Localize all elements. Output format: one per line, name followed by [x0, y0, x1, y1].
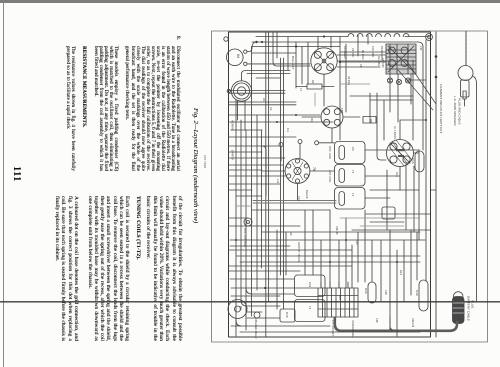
svg-text:80: 80	[239, 306, 243, 310]
svg-text:C18 .05: C18 .05	[335, 226, 338, 235]
svg-text:76: 76	[312, 167, 316, 171]
svg-text:PLUG: PLUG	[471, 300, 475, 309]
wire mid ladder y170	[229, 169, 262, 171]
tube V2 shield rings	[231, 81, 251, 101]
wire top inner y62	[340, 61, 386, 63]
mid horizontal wire 3	[231, 129, 262, 131]
svg-text:R16 400: R16 400	[411, 318, 414, 328]
wire top inner y52	[340, 51, 386, 53]
bottom vertical wire 15	[403, 240, 405, 301]
vertical harness wire 6	[261, 130, 263, 268]
wire long top run with bend	[252, 42, 423, 150]
light wire x315 drop	[314, 93, 316, 106]
wire drop K	[307, 42, 309, 84]
wire mid ladder y165	[229, 164, 283, 166]
wire right vertical x384	[383, 100, 385, 140]
wire right vertical x377	[376, 93, 378, 123]
wire socketD down right	[405, 164, 407, 230]
scan left page edge line	[3, 2, 4, 367]
wire mid vertical x346	[345, 44, 347, 112]
svg-text:C15: C15	[285, 312, 289, 318]
battery cable thick run	[335, 318, 457, 331]
wire bottom y232	[262, 231, 420, 233]
condenser block C15	[280, 309, 295, 322]
svg-text:S.W. PAD: S.W. PAD	[371, 46, 374, 57]
svg-text:84: 84	[236, 54, 240, 58]
svg-text:1B5: 1B5	[340, 108, 344, 114]
svg-text:R2: R2	[311, 80, 315, 84]
wire coil box outlet 3	[365, 197, 390, 199]
wire mid ladder y190	[229, 189, 252, 191]
mid horizontal wire 1	[229, 114, 320, 116]
svg-text:C16: C16	[411, 158, 415, 164]
svg-text:C6: C6	[351, 147, 355, 151]
mid horizontal wire 7	[229, 175, 285, 177]
svg-text:L.S. SOCKET: L.S. SOCKET	[331, 320, 335, 336]
svg-text:R5: R5	[289, 232, 293, 236]
svg-text:R10: R10	[355, 240, 358, 245]
bottom vertical wire 16	[410, 230, 412, 295]
wire mid y210	[252, 209, 330, 211]
svg-text:R8: R8	[369, 119, 373, 123]
bottom vertical wire 14	[396, 250, 398, 336]
svg-text:I.F. TRANS.: I.F. TRANS.	[393, 126, 397, 140]
socket C leads	[262, 171, 334, 200]
valve socket A	[311, 48, 337, 74]
tube V2 left terminal	[227, 89, 231, 92]
wire bottom vertical 17	[285, 232, 287, 275]
svg-text:BATTERY CABLE: BATTERY CABLE	[467, 296, 471, 321]
trimmer bank block	[386, 44, 416, 74]
wire left low ladder y312	[247, 311, 262, 313]
valve socket D	[387, 140, 414, 167]
tube V2 top lead pair	[247, 73, 290, 75]
bottom vertical wire 5	[304, 210, 306, 275]
bottom horizontal wire 2	[229, 249, 352, 251]
wire mid ladder y152	[229, 151, 262, 153]
socket A leads	[324, 61, 386, 106]
wire right vertical x387	[386, 170, 388, 230]
socket B leads	[302, 117, 360, 142]
wire drop D	[287, 37, 289, 71]
chassis right flange line	[435, 32, 437, 337]
svg-text:C23: C23	[308, 282, 312, 288]
tube V1 lower lead	[247, 63, 310, 65]
electrolytic C16	[415, 151, 424, 172]
bottom vertical wire 6	[312, 210, 314, 275]
wire bottom vertical 18	[320, 240, 322, 288]
left long vertical pair	[266, 32, 269, 337]
tube V2 top lead	[242, 71, 291, 81]
wire pair mid-left y90	[229, 91, 285, 94]
wire top drop dashes	[465, 32, 467, 66]
wire bank link 2	[337, 66, 380, 68]
svg-text:C30: C30	[415, 290, 419, 296]
wire bank link 1	[337, 54, 386, 56]
wire drop F	[317, 37, 319, 50]
socket D tick rects	[396, 149, 404, 157]
tube V1 upper lead with corner	[247, 42, 257, 52]
wire bottom y266	[229, 265, 352, 267]
wire drop H	[357, 35, 359, 56]
wire left low ladder y318	[247, 317, 280, 319]
wire drop C	[276, 32, 278, 58]
svg-text:C4: C4	[286, 128, 290, 132]
bottom horizontal wire 4	[229, 270, 300, 272]
svg-text:VOL. CONTROL: VOL. CONTROL	[243, 228, 247, 248]
svg-text:R12: R12	[338, 295, 342, 301]
svg-text:C26: C26	[384, 290, 388, 295]
wire bottom corner 1	[246, 288, 294, 294]
light wire y226 right	[360, 225, 404, 227]
vertical harness wire 3	[245, 130, 247, 330]
bottom vertical wire 13	[389, 230, 391, 330]
svg-text:C13: C13	[297, 196, 301, 201]
mid horizontal wire 6	[229, 157, 285, 159]
svg-text:C9 TRIM: C9 TRIM	[381, 58, 384, 68]
svg-text:L.S. 4D/W SPEAKER: L.S. 4D/W SPEAKER	[453, 96, 457, 126]
bottom vertical wire 8	[338, 240, 340, 288]
svg-text:ANT. TRIM.: ANT. TRIM.	[203, 155, 207, 169]
svg-text:L7: L7	[299, 88, 303, 92]
bottom vertical wire 9	[345, 218, 347, 288]
wire bottom corner 2	[241, 300, 280, 306]
figure caption	[192, 108, 199, 228]
trimmer sub circles	[387, 78, 410, 85]
wire pair mid-left y102	[229, 102, 296, 105]
border dots right	[435, 55, 438, 78]
wire top extra y57	[252, 52, 296, 54]
svg-text:SPEAKER FIELD: SPEAKER FIELD	[254, 318, 258, 338]
wire drop G	[330, 37, 332, 49]
speaker plug cap	[458, 66, 473, 81]
pointer line 2	[398, 70, 433, 110]
mid horizontal wire 5	[229, 145, 279, 147]
svg-text:PLUG AND CABLE: PLUG AND CABLE	[458, 98, 462, 125]
terminal board	[318, 288, 358, 317]
wire right mid 1	[412, 60, 414, 140]
light wire y206	[236, 205, 252, 207]
wire bank drop 1	[389, 74, 391, 112]
rectifier tube V5	[228, 300, 247, 319]
svg-text:L11: L11	[276, 179, 280, 184]
svg-text:OUTPUT TRANS.: OUTPUT TRANS.	[297, 242, 301, 263]
bottom horizontal wire 6	[231, 287, 318, 289]
bottom vertical wire 7	[329, 210, 331, 288]
wire drop E	[295, 42, 297, 88]
svg-text:R1 2000: R1 2000	[361, 50, 364, 60]
wire drop J	[301, 47, 303, 85]
bottom vertical wire 10	[351, 245, 353, 288]
bottom vertical wire 3	[276, 230, 278, 309]
wire bottom y296	[231, 295, 280, 297]
svg-text:BALLAST: BALLAST	[291, 56, 295, 69]
wire board top links	[321, 282, 348, 288]
vertical harness wire 4	[251, 47, 253, 317]
light wire y218 long	[340, 217, 420, 219]
wire plug pin drop	[464, 99, 466, 106]
wire top second run	[252, 46, 340, 48]
diagram outer boundary	[212, 31, 488, 342]
pilot socket	[244, 218, 252, 226]
svg-text:C1: C1	[262, 98, 266, 102]
valve socket C (76)	[285, 159, 310, 184]
svg-text:R14: R14	[399, 270, 403, 275]
tube V2 bottom leads	[238, 101, 246, 131]
wire right ladder y230	[352, 229, 430, 231]
coil box T1	[335, 142, 366, 164]
vertical pair x280	[281, 58, 284, 309]
wire drop B	[273, 32, 310, 66]
twisted pair	[253, 201, 336, 204]
wire right ladder y96	[350, 95, 413, 97]
socket D hatch	[390, 140, 412, 166]
coil box T2	[335, 165, 366, 187]
wire right mid 4	[369, 93, 371, 123]
wire right ladder y190	[370, 189, 419, 191]
speaker plug drop wire	[465, 32, 467, 66]
bottom horizontal wire 1	[230, 239, 425, 241]
wire mid y218	[229, 217, 248, 219]
wire top rail run	[256, 36, 429, 38]
wire top extra y75	[256, 77, 280, 79]
wire right low vertical x433 gap	[431, 189, 437, 191]
grommet top right	[426, 34, 433, 41]
battery cable line across page	[0, 301, 500, 303]
transformer box 1	[295, 275, 326, 297]
coil terminal	[315, 141, 334, 145]
wire right mid 2	[408, 79, 426, 81]
tube V1 type 84	[227, 49, 248, 66]
wire corner right mid	[377, 123, 386, 160]
svg-text:B.C. PAD: B.C. PAD	[377, 56, 380, 66]
svg-text:AERIAL: AERIAL	[231, 120, 235, 131]
electrolytic C30	[419, 280, 428, 311]
junction blob row	[261, 35, 341, 63]
resistor R1	[363, 117, 376, 124]
wire mid vertical x340	[339, 37, 341, 141]
wire board to cable	[390, 317, 394, 330]
electrolytic C20	[368, 282, 376, 303]
svg-text:C5 OSC: C5 OSC	[351, 48, 354, 58]
wire mid ladder y184	[229, 183, 280, 185]
valve socket B	[321, 106, 343, 128]
svg-text:T4: T4	[308, 306, 312, 310]
svg-text:OSC. COIL: OSC. COIL	[328, 146, 332, 160]
junction dots	[235, 114, 427, 289]
vertical harness wire 2	[240, 120, 242, 300]
socket C inner ticks	[292, 162, 303, 180]
wire coil feed upper	[262, 146, 266, 196]
page number	[12, 166, 23, 182]
bottom vertical wire 12	[371, 240, 373, 282]
wire right ladder y214	[366, 213, 430, 215]
wire bottom vertical 21	[416, 232, 418, 280]
wire mid ladder y196	[236, 195, 262, 197]
svg-text:BLACK: BLACK	[305, 190, 309, 199]
battery cable plug	[453, 292, 465, 324]
bottom horizontal wire 3	[240, 261, 420, 263]
right long vertical wire	[425, 40, 427, 281]
wire bank drop 3	[410, 74, 412, 104]
wire mid y226	[229, 225, 300, 227]
mid horizontal wire 2	[229, 121, 333, 123]
grommet small	[254, 312, 260, 318]
svg-text:T2: T2	[351, 193, 355, 197]
svg-text:ANT. COIL: ANT. COIL	[328, 170, 332, 183]
light wire y84	[340, 83, 370, 85]
wire bottom y256	[236, 255, 420, 257]
wire bottom y246	[230, 245, 290, 247]
svg-text:C2: C2	[269, 107, 273, 111]
svg-text:FILAMENT AND PILOT LIGHT CKT.: FILAMENT AND PILOT LIGHT CKT.	[439, 84, 443, 134]
chassis corner grommet	[224, 37, 228, 41]
vertical harness wire 5	[256, 115, 258, 290]
bottom vertical wire 11	[364, 210, 366, 282]
speaker plug body	[461, 80, 470, 99]
socket D leads	[400, 120, 419, 190]
wire bottom inner rail 2	[240, 331, 420, 333]
bottom horizontal wire 5	[230, 278, 294, 280]
wire loop humps over top rail	[348, 34, 409, 37]
mid horizontal wire 4	[229, 136, 296, 138]
wire bottom vertical 20	[380, 240, 382, 302]
svg-text:T1: T1	[351, 170, 355, 174]
svg-text:C20: C20	[364, 288, 368, 294]
svg-text:R3: R3	[310, 118, 314, 122]
right vertical wire 2	[418, 150, 420, 240]
wire right vertical x414	[413, 166, 415, 232]
wire right ladder y222	[370, 221, 404, 223]
coil box T3	[335, 188, 366, 210]
wire bottom left corner hook	[236, 320, 241, 326]
pointer line 1	[406, 60, 436, 104]
wire drop I	[367, 35, 369, 44]
socket C terminals above	[279, 140, 302, 162]
resistor R2	[296, 84, 334, 89]
svg-text:C8: C8	[359, 64, 363, 68]
svg-text:VOLTAGE ADJ.: VOLTAGE ADJ.	[351, 320, 355, 338]
wire bottom inner rail	[231, 325, 330, 327]
svg-text:C12: C12	[419, 46, 422, 51]
wire bottom vertical 19	[357, 232, 359, 282]
svg-text:C28: C28	[375, 318, 378, 323]
transformer box 2	[295, 300, 326, 322]
speaker plug cable	[473, 76, 477, 301]
wire bank drop 2	[397, 74, 399, 122]
vertical harness wire 1	[235, 100, 237, 336]
junction dot V1	[255, 41, 257, 43]
scan top edge strip	[0, 0, 500, 3]
electrolytic can right	[382, 207, 395, 219]
socket D up wire	[400, 119, 426, 121]
svg-text:C11: C11	[395, 172, 399, 177]
wire coil box outlet 1	[365, 149, 419, 151]
svg-text:EARTH: EARTH	[231, 150, 235, 160]
wire right mid 3	[370, 99, 413, 101]
wire coil box outlet 2	[365, 175, 400, 177]
chassis outline	[229, 32, 431, 337]
